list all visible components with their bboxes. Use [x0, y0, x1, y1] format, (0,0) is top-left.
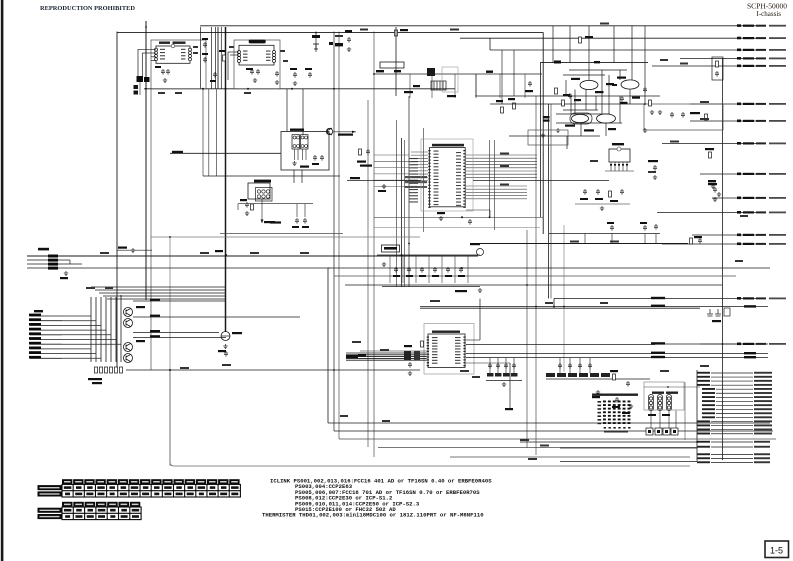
net label: [360, 29, 368, 31]
stub left label: [697, 429, 710, 431]
wire bus into IC501 area: [374, 167, 409, 169]
wire cluster 104: [490, 103, 645, 105]
wire nested box left 1: [327, 268, 329, 423]
junction: [526, 284, 528, 286]
label 574 99: [574, 99, 581, 101]
junction: [408, 243, 410, 245]
label under Q601: [595, 91, 604, 93]
wire drop 488 cluster 2: [497, 358, 499, 374]
label mid-left gnd: [118, 247, 127, 249]
IC801 left pin names: [432, 337, 438, 364]
stub arrow: [737, 297, 741, 300]
wire T601 leg2: [297, 149, 299, 160]
capacitor 233c: [654, 224, 658, 230]
connector stub right 244: [662, 243, 766, 245]
wire drop 488 cluster 1: [489, 358, 491, 374]
stub left label: [697, 372, 710, 374]
resistor R652: [609, 191, 612, 197]
stub label: [743, 197, 754, 199]
IC602 right pin labels: [266, 51, 271, 61]
diode row: [477, 249, 484, 256]
label 510 down: [505, 408, 513, 410]
IC601 pin L1: [155, 48, 158, 51]
wire cluster vertical: [601, 70, 603, 114]
wire IC601 in3: [151, 56, 156, 58]
wire nested box bottom 4: [378, 447, 697, 449]
junction 370: [169, 369, 171, 371]
ferrite bead FB801: [404, 351, 411, 360]
wire drop from 74: [409, 74, 411, 98]
resistor right of relay: [359, 149, 362, 155]
connector stub fan 2: [711, 376, 753, 378]
IC602 pin L4: [238, 60, 241, 63]
label cluster left2: [543, 120, 550, 122]
net label: [528, 458, 537, 460]
wire IC301 drop2: [296, 204, 298, 217]
wire nested box bottom 2: [334, 430, 773, 432]
stub label: [743, 211, 754, 213]
capacitor row 4: [433, 267, 437, 273]
connector stub fan 16: [711, 433, 753, 435]
capacitor right 168: [653, 165, 657, 171]
wire corner 554: [553, 299, 555, 309]
wire into relay top 2: [302, 89, 304, 135]
wire T601 leg3: [302, 149, 304, 160]
net label: [570, 241, 579, 243]
capacitor pair 306 line: [707, 309, 721, 316]
wire to IC501 left: [411, 173, 428, 175]
wire drop from 74: [431, 74, 433, 98]
connector stub fan 7: [716, 396, 753, 398]
stub arrow: [737, 65, 741, 68]
label right of relay: [357, 161, 366, 163]
resistor cluster 1: [555, 88, 558, 94]
wire bus to IC801 1: [346, 352, 427, 354]
IC601 pin L2: [155, 51, 158, 54]
label row bottom: [455, 290, 467, 292]
wire cluster vertical: [608, 75, 610, 114]
net label: [86, 287, 95, 289]
wire CN top: [644, 386, 700, 388]
stub net name: [769, 343, 786, 345]
wire gray 233: [220, 233, 343, 235]
ground C801: [408, 371, 412, 375]
capacitor row 2: [407, 267, 411, 273]
IC602 left pin labels: [243, 51, 248, 61]
resistor cluster 2: [562, 100, 565, 106]
stub net name: [769, 103, 786, 105]
wire into relay: [170, 152, 281, 154]
regulator leg 1: [610, 162, 612, 171]
IC601 pin L4: [155, 58, 158, 61]
wire vertical gray 564: [563, 225, 565, 372]
label diode row: [470, 243, 480, 245]
net label: [610, 241, 619, 243]
transformer pins top: [293, 136, 308, 139]
wire IC801 up to 298: [479, 299, 481, 341]
resistor 580 top: [579, 37, 582, 43]
wire to IC501 left: [411, 151, 428, 153]
IC301 title bar: [254, 180, 271, 183]
diode D301: [221, 332, 230, 341]
connector stub right 198: [712, 197, 766, 199]
capacitor row 3: [420, 267, 424, 273]
net label: [340, 415, 348, 417]
stub label 353: [744, 352, 756, 354]
label mid q: [612, 84, 617, 86]
wire double vertical b: [540, 63, 542, 218]
junction 217: [461, 216, 463, 218]
wire top drop to cluster: [631, 26, 633, 63]
stub label 357: [744, 356, 756, 358]
wire row drop 4: [428, 255, 430, 283]
capacitor IC301: [245, 202, 249, 208]
net label: [500, 165, 509, 167]
junction: [401, 254, 403, 256]
resistor IC301: [251, 204, 254, 210]
net label 298 left: [651, 297, 665, 299]
stub label: [743, 173, 754, 175]
stub right label: [754, 388, 772, 390]
net label: [382, 420, 390, 422]
wire relay down 2: [301, 170, 303, 183]
op-amp IC601 body: [156, 46, 190, 63]
capacitor IC301 d3: [303, 218, 307, 224]
wire below caps: [575, 203, 630, 205]
label resistor row 2: [92, 382, 102, 384]
wire nested box bottom 1: [328, 422, 770, 424]
stub net name: [769, 212, 786, 214]
wire drop 373 4: [589, 358, 591, 373]
connector stub left 1: [30, 315, 62, 317]
connector stub fan 10: [716, 408, 753, 410]
net label: [660, 59, 668, 61]
ground C610: [293, 81, 297, 85]
wire from IC501 right: [466, 164, 537, 166]
junction: [225, 88, 227, 90]
stub right label: [754, 446, 770, 448]
stub right label: [754, 461, 770, 463]
IC601 pin R3: [189, 55, 192, 58]
stub label 2: [756, 37, 766, 39]
label 514: [508, 98, 515, 100]
stub net name: [769, 234, 786, 236]
label 688: [694, 236, 702, 238]
junction label 62a: [554, 61, 561, 64]
wire stub to bus: [62, 315, 91, 317]
capacitor mid2: [203, 57, 207, 63]
IC501 right pin strip: [463, 150, 465, 208]
label right of relay2: [360, 165, 372, 167]
stub arrow: [737, 37, 741, 40]
wire cluster vertical: [605, 123, 607, 136]
box small right top: [712, 57, 723, 80]
wire stub to bus: [62, 353, 96, 355]
wire 136: [509, 135, 600, 137]
IC301 inner box: [256, 188, 273, 202]
grid matrix row/col labels: [598, 401, 631, 429]
net label: [660, 370, 669, 372]
net label 357: [651, 356, 665, 358]
resistor R801: [421, 341, 424, 347]
bus label left 2: [358, 354, 366, 356]
stub label 2: [756, 65, 766, 67]
capacitor 373 2: [568, 363, 572, 369]
wire stub to bus: [62, 348, 91, 350]
wire vertical bus A: [145, 21, 147, 300]
wire under 488 cluster: [486, 380, 522, 382]
wire left edge 264: [27, 263, 82, 265]
svg-text:1-5: 1-5: [770, 546, 783, 556]
ground 373 row: [596, 390, 600, 394]
ferrite bead FB802: [414, 351, 420, 360]
connector stub label: [29, 332, 41, 335]
junction: [315, 32, 317, 34]
connector CN801 title: [652, 392, 664, 394]
CN bottom boxes: [646, 428, 678, 435]
IC601 left pin labels: [160, 49, 165, 60]
connector stub right 104: [690, 103, 766, 105]
connector stub left 4: [30, 329, 62, 331]
regulator leg pad: [622, 164, 624, 166]
wire cluster vertical: [619, 70, 621, 80]
label gnd D301: [218, 350, 226, 352]
ground below IC501: [439, 216, 443, 220]
stub right label: [754, 372, 772, 374]
label resistor row: [88, 378, 102, 380]
connector stub fan 8: [716, 400, 753, 402]
wire right of IC501 v1: [489, 140, 491, 218]
wire bus to IC801 5: [346, 359, 427, 361]
IC501 left wire cluster: [409, 158, 418, 203]
connector stub label: [29, 318, 41, 321]
label C652: [580, 198, 588, 200]
net label: [300, 252, 309, 254]
part 316: [313, 44, 319, 49]
label C611: [305, 68, 312, 70]
wire from IC501 right: [466, 154, 537, 156]
junction: [722, 343, 724, 345]
wire row drop 2: [402, 255, 404, 283]
net label: [740, 215, 748, 217]
wire top border: [117, 32, 544, 34]
wire long 357: [610, 357, 768, 359]
connector stub fan 13: [711, 421, 753, 423]
label 502: [496, 100, 503, 102]
connector title left: [34, 310, 43, 312]
label C653: [595, 198, 603, 200]
wire CN drop 3: [668, 411, 670, 429]
junction: [535, 306, 537, 308]
net label: [670, 141, 679, 143]
wire long 461: [560, 461, 697, 463]
capacitor IC301 d2: [295, 218, 299, 224]
resistor bus 4: [110, 367, 113, 373]
label 233a: [607, 222, 614, 224]
IC602 black title: [249, 40, 266, 44]
wire nested box left 3: [338, 32, 340, 440]
junction: [291, 88, 293, 90]
regulator leg 5: [626, 162, 628, 171]
net label: [335, 35, 343, 37]
box right mid: [644, 104, 723, 130]
IC801 title bar: [432, 331, 460, 333]
stub label 2: [756, 103, 766, 105]
wire vertical top cluster: [217, 27, 219, 89]
pin number label a: [193, 46, 198, 48]
wire bus to IC801 extra: [360, 350, 427, 352]
wire stub join: [489, 38, 491, 50]
pin number label c: [229, 46, 234, 48]
ground 400: [629, 404, 633, 408]
label T601: [290, 129, 304, 131]
capacitor relay2: [320, 155, 324, 161]
wire from IC501 right lower: [466, 198, 527, 200]
ground IC601: [163, 78, 167, 82]
wire 233 drop: [584, 234, 586, 244]
stub label: [743, 57, 754, 59]
net label 337: [150, 335, 160, 337]
ground L68V: [382, 262, 386, 266]
connector CN pin col 3: [666, 395, 671, 411]
label IC301 cap: [240, 199, 247, 201]
connector stub label: [29, 314, 41, 317]
capacitor C607: [275, 71, 279, 77]
transistor Q303: [124, 343, 133, 352]
net label: [700, 101, 709, 103]
wire cluster vertical: [619, 96, 621, 123]
net label: [590, 160, 598, 162]
connector stub fan 14: [711, 425, 753, 427]
transformer T601 right half: [301, 135, 309, 149]
wire bus into IC501 area: [374, 160, 409, 162]
capacitor 688: [698, 238, 702, 244]
wire row drop 7: [467, 255, 469, 283]
net label 332: [150, 330, 160, 332]
component row 373: [546, 373, 610, 377]
transistor Q301: [124, 308, 133, 317]
wire Q out 301: [133, 300, 226, 302]
component row 488: [487, 373, 518, 377]
wire to IC501 left: [411, 179, 428, 181]
wire mid vertical 536: [535, 96, 537, 455]
stub arrow: [737, 197, 741, 200]
transistor Q304: [124, 354, 133, 363]
stub arrow: [737, 120, 741, 123]
stub net name: [769, 173, 786, 175]
junction: [667, 386, 669, 388]
connector stub fan 9: [716, 404, 753, 406]
label cluster left: [543, 116, 550, 118]
capacitor 488 cluster 4: [512, 363, 516, 369]
label under Q603: [565, 125, 575, 127]
stub left label: [697, 384, 710, 386]
IC501 left pin names: [434, 151, 439, 206]
wire T601 leg4: [305, 149, 307, 160]
wire to IC501 left: [411, 157, 428, 159]
capacitor cluster 1: [568, 93, 572, 99]
resistor mid: [223, 55, 226, 61]
wire row drop 6: [454, 255, 456, 283]
IC301 pins: [257, 190, 269, 198]
stub label 2: [756, 49, 766, 51]
net label relay in: [172, 151, 183, 153]
IC IC501 body: [430, 148, 466, 207]
page left edge bar: [1, 0, 4, 561]
capacitor C601: [161, 69, 165, 75]
regulator leg pad: [618, 164, 620, 166]
stub left label: [697, 376, 710, 378]
label 373 row: [592, 396, 600, 398]
net label: [520, 439, 529, 441]
stub left label: [697, 441, 710, 443]
wire Q out 317: [133, 316, 300, 318]
junction: [644, 103, 646, 105]
wire IC602 in2: [230, 54, 239, 56]
svg-text:I-chassis: I-chassis: [757, 10, 782, 18]
IC IC801 body: [428, 334, 465, 368]
op-amp IC602 body: [239, 45, 274, 65]
resistor bus 5: [115, 367, 118, 373]
stub label 2: [756, 197, 766, 199]
stub left label: [697, 433, 710, 435]
wire T601 leg1: [294, 149, 296, 160]
stub net name: [769, 143, 786, 145]
stub arrow: [737, 343, 741, 346]
stub arrow: [737, 142, 741, 145]
stub label: [743, 243, 754, 245]
junction: [120, 295, 122, 297]
label IC652: [612, 143, 624, 145]
wire gray mid 217: [374, 216, 543, 218]
wire under regulator: [605, 170, 634, 172]
wire cluster vertical: [585, 90, 587, 111]
stub right label: [754, 453, 770, 455]
wire top drop to cluster: [552, 26, 554, 63]
wire from IC501 right: [466, 167, 537, 169]
connector stub fan 4: [711, 384, 753, 386]
capacitor 233a: [610, 225, 614, 231]
stub arrow: [737, 243, 741, 246]
wire from IC501 right: [466, 170, 537, 172]
ground IC301: [245, 211, 249, 215]
IC501 title bar: [432, 144, 464, 147]
arrow Q605: [352, 131, 356, 133]
net label: [100, 252, 109, 254]
IC301 body: [248, 183, 270, 199]
connector stub fan 12: [716, 417, 753, 419]
label IC301 caps: [270, 221, 281, 223]
wire vertical between ICs: [215, 27, 217, 89]
svg-text:THERMISTER THD01,002,003:mini1: THERMISTER THD01,002,003:mini18MDC100 or…: [262, 512, 484, 519]
stub label 306: [744, 305, 756, 307]
stub left label: [702, 416, 715, 418]
regulator leg pad: [614, 164, 616, 166]
stub right label: [754, 404, 772, 406]
stub left label: [697, 424, 710, 426]
label mid cap2: [202, 53, 208, 55]
table A header row: [62, 479, 240, 484]
pin number label e: [283, 60, 288, 62]
resistor bus 6: [120, 367, 123, 373]
capacitor row 1: [394, 267, 398, 273]
wire nested box bottom 3: [339, 438, 776, 440]
wire drop from 74: [524, 74, 526, 98]
connector stub label: [29, 323, 41, 326]
wire bus to IC801 2: [346, 354, 427, 356]
wire stub to bus: [62, 320, 96, 322]
wire 233 drop: [611, 234, 613, 244]
